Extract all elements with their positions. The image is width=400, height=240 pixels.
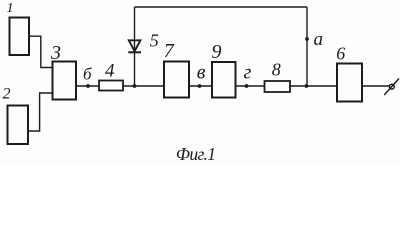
wire output: [362, 85, 390, 87]
svg-text:5: 5: [150, 30, 159, 50]
wire block3 to resistor 4: [76, 85, 99, 87]
wire block7 to block9: [189, 85, 212, 87]
svg-text:Фиг.1: Фиг.1: [176, 144, 216, 164]
wire block2 to block3: [28, 93, 53, 131]
output terminal symbol: [384, 79, 399, 96]
svg-text:8: 8: [272, 60, 281, 80]
wire resistor8 to block6: [290, 85, 337, 87]
wire block1 to block3: [29, 36, 53, 67]
wire block9 to resistor 8: [236, 85, 265, 87]
node а: [305, 29, 323, 50]
block 7: [164, 40, 189, 98]
block 6: [336, 43, 362, 101]
svg-text:6: 6: [336, 43, 345, 63]
diode 5: [128, 30, 158, 52]
svg-text:9: 9: [212, 41, 222, 63]
wire feedback right vertical: [306, 7, 308, 86]
junction feedback: [305, 84, 309, 88]
block 3: [50, 42, 76, 100]
block 2: [3, 86, 29, 145]
svg-text:2: 2: [3, 86, 11, 103]
svg-text:3: 3: [50, 42, 61, 64]
svg-text:4: 4: [105, 61, 115, 82]
block 9: [212, 41, 236, 98]
node г: [244, 62, 252, 88]
node б: [83, 65, 92, 88]
svg-text:в: в: [197, 62, 206, 84]
node в: [197, 62, 206, 88]
svg-text:а: а: [314, 29, 324, 50]
block 1: [7, 1, 30, 55]
wire diode branch vertical: [134, 7, 136, 86]
svg-text:1: 1: [7, 1, 14, 16]
resistor 8: [265, 60, 291, 93]
wire feedback top: [135, 6, 308, 8]
svg-text:г: г: [244, 62, 252, 84]
junction diode branch: [133, 84, 137, 88]
svg-text:7: 7: [164, 40, 175, 62]
svg-text:б: б: [83, 65, 92, 84]
wire resistor4 to block7: [123, 85, 164, 87]
resistor 4: [99, 61, 123, 91]
